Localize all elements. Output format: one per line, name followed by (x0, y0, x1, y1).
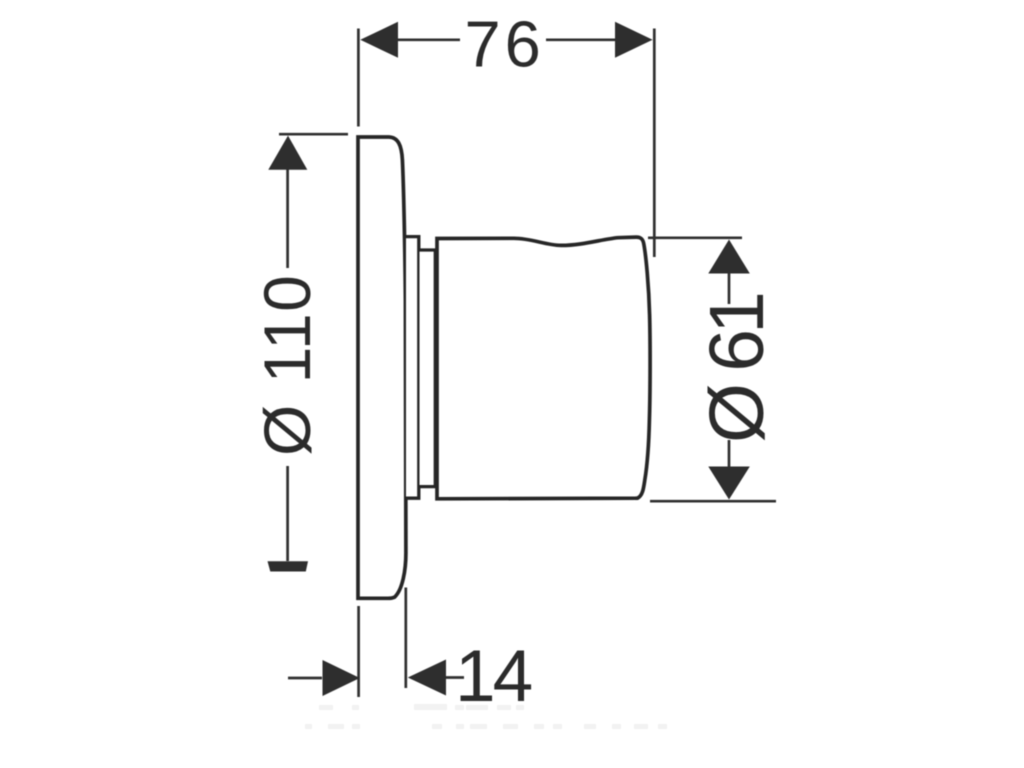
svg-text:Ø 61: Ø 61 (694, 294, 780, 443)
svg-text:Ø 110: Ø 110 (250, 274, 324, 456)
svg-text:76: 76 (465, 8, 545, 81)
svg-text:14: 14 (455, 636, 532, 717)
